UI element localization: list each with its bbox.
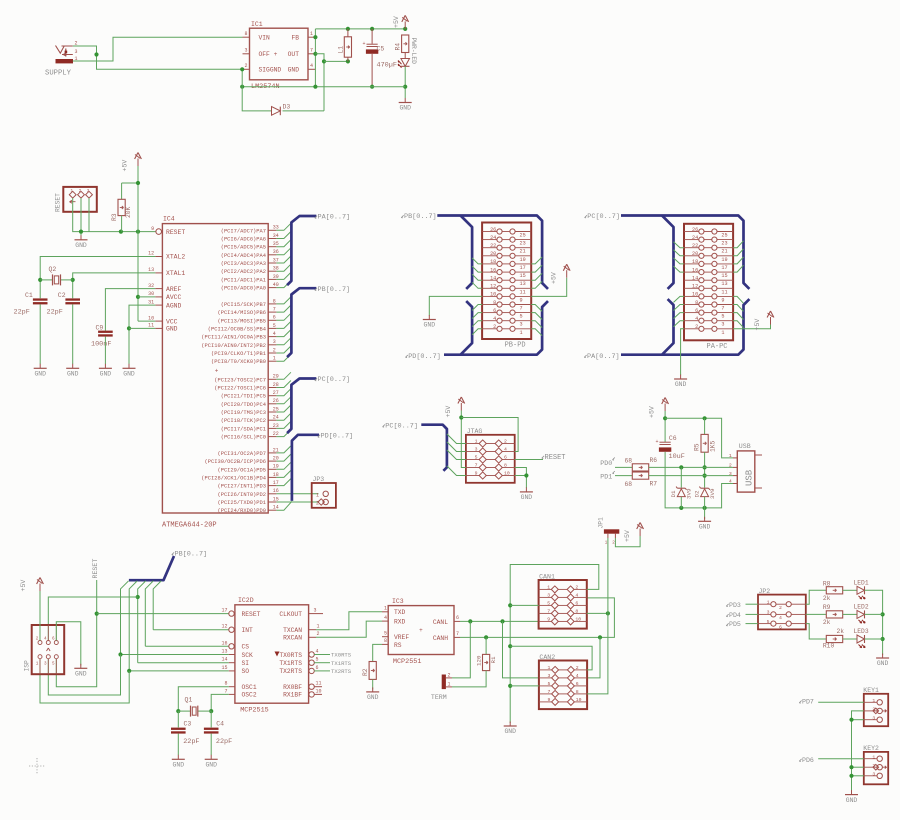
svg-text:10: 10: [576, 697, 582, 703]
svg-text:OSC2: OSC2: [242, 692, 257, 699]
svg-text:4: 4: [575, 592, 578, 598]
IC4 pin (PCI19/TMS)PC3 25: [268, 411, 276, 413]
svg-text:5: 5: [52, 662, 55, 667]
USB pin 4: [733, 483, 737, 485]
svg-text:TX0RTS: TX0RTS: [279, 652, 302, 659]
svg-text:20: 20: [692, 251, 698, 257]
wire USB +5V rail: [664, 411, 666, 442]
svg-text:3: 3: [273, 339, 276, 345]
svg-text:CAN2: CAN2: [539, 654, 555, 661]
IC2D pin SI 14: [229, 662, 235, 664]
svg-text:2k: 2k: [823, 595, 831, 602]
wire IC4 (PCI0/ADC0)PA0 to bus: [276, 281, 291, 288]
svg-text:10: 10: [490, 292, 496, 298]
svg-text:2: 2: [504, 438, 507, 444]
svg-text:17: 17: [221, 608, 227, 614]
wire IC4 (PCI7/ADC7)PA7 to bus: [276, 223, 291, 230]
IC4 pin (PCI25/TXD0)PD1 15: [268, 501, 276, 503]
svg-text:8: 8: [576, 689, 579, 695]
svg-text:2k: 2k: [823, 619, 831, 626]
svg-text:(PCI25/TXD0)PD1: (PCI25/TXD0)PD1: [217, 500, 266, 506]
svg-text:(PCI31/OC2A)PD7: (PCI31/OC2A)PD7: [217, 451, 266, 457]
svg-text:R1: R1: [490, 656, 497, 663]
IC2D pin RXCAN 2 wire to IC3 RXD: [309, 636, 316, 638]
PB-PD pin row 12/11: [482, 287, 497, 289]
wire JP1 pin2 to +5V: [615, 536, 640, 547]
svg-text:MCP2551: MCP2551: [393, 658, 422, 666]
svg-text:1: 1: [36, 662, 39, 667]
svg-text:KEY2: KEY2: [863, 745, 879, 752]
svg-text:GND: GND: [288, 67, 300, 74]
svg-text:LED1: LED1: [854, 580, 869, 587]
svg-text:RESET: RESET: [166, 229, 185, 236]
svg-text:8: 8: [224, 681, 227, 687]
wire OSC2 to Q1: [211, 694, 229, 711]
svg-text:2: 2: [576, 665, 579, 671]
PB-PD pin row 6/5: [482, 312, 497, 314]
svg-text:10: 10: [575, 616, 581, 622]
svg-text:1: 1: [872, 754, 875, 760]
junction C5 bottom on gnd rail: [370, 85, 374, 89]
svg-text:4: 4: [316, 649, 319, 655]
wire JP2 pin4 to R9: [806, 613, 827, 615]
svg-text:C1: C1: [25, 292, 33, 299]
wire IC4 (PCI17/SDA)PC1 to bus: [276, 421, 291, 428]
wire FB/OUT vertical: [314, 29, 316, 87]
voltage regulator IC1 LM2574N box: [250, 28, 309, 80]
jumper TERM: [442, 675, 446, 690]
capacitor C2 22pF: [65, 298, 80, 300]
IC3 pin RXD 4: [382, 620, 388, 622]
connector CAN2 box: [539, 661, 587, 710]
svg-text:8: 8: [504, 462, 507, 468]
svg-text:GND: GND: [123, 371, 135, 378]
can controller IC2D MCP2515 box: [235, 605, 309, 703]
svg-text:8: 8: [384, 638, 387, 644]
svg-text:GND: GND: [699, 524, 711, 531]
wire SCK net: [121, 654, 229, 656]
can transceiver IC3 MCP2551 box: [388, 606, 454, 655]
svg-text:22pF: 22pF: [183, 738, 199, 746]
svg-text:GND: GND: [877, 660, 889, 667]
svg-text:(PCI3/ADC3)PA3: (PCI3/ADC3)PA3: [221, 261, 266, 267]
svg-text:GND: GND: [521, 494, 533, 501]
svg-text:(PCI16/SCL)PC0: (PCI16/SCL)PC0: [221, 435, 266, 441]
svg-text:(PCI30/OC2B/ICP)PD6: (PCI30/OC2B/ICP)PD6: [205, 459, 266, 465]
svg-text:1: 1: [448, 682, 451, 688]
svg-text:1: 1: [729, 453, 732, 459]
wire PD6 to KEY2 pin1: [818, 758, 864, 760]
IC2D pin OSC1 8: [229, 686, 235, 688]
svg-text:1: 1: [273, 356, 276, 362]
svg-text:5: 5: [475, 454, 478, 460]
svg-text:SI: SI: [242, 660, 250, 667]
bus PB[0..7] at MCP2515: [129, 556, 174, 580]
PA-PC pin row 10/9: [684, 295, 699, 297]
svg-text:4: 4: [273, 331, 276, 337]
svg-text:CS: CS: [242, 644, 250, 651]
IC4 pin (PCI20/TDO)PC4 26: [268, 403, 276, 405]
wire IC4 (PCI12/OC0B/SS)PB4 to bus: [276, 321, 291, 328]
svg-text:2: 2: [575, 584, 578, 590]
svg-text:OSC1: OSC1: [242, 684, 257, 691]
IC3 pin RS 8: [382, 643, 388, 645]
svg-text:26: 26: [490, 227, 496, 233]
svg-text:R10: R10: [823, 642, 835, 649]
svg-text:4: 4: [695, 316, 698, 322]
ground below C9: [104, 364, 106, 369]
PA-PC pin row 2/1: [684, 328, 699, 330]
IC3 pin CANL 6: [454, 620, 460, 622]
wire RESET to IC2D: [97, 613, 229, 615]
svg-text:12: 12: [490, 284, 496, 290]
JP2 pin row 5/6: [758, 623, 771, 625]
wire JTAG pin6 RESET: [515, 459, 543, 461]
wire to gnd below USB rail: [704, 508, 706, 519]
IC1 pin FB 1: [308, 36, 315, 38]
svg-text:SUPPLY: SUPPLY: [45, 70, 72, 78]
IC4 pin (PCI12/OC0B/SS)PB4 5: [268, 327, 276, 329]
svg-text:GND: GND: [75, 671, 87, 678]
IC4 pin (PCI14/MISO)PB6 7: [268, 311, 276, 313]
svg-text:(PCI4/ADC4)PA4: (PCI4/ADC4)PA4: [221, 253, 266, 259]
resistor R8 2k: [826, 587, 842, 594]
svg-text:14: 14: [692, 276, 698, 282]
wire reset header pin3: [88, 198, 90, 232]
svg-text:C9: C9: [96, 325, 104, 332]
svg-text:VCC: VCC: [166, 318, 178, 325]
svg-text:PD[0..7]: PD[0..7]: [321, 433, 354, 441]
svg-text:10: 10: [692, 292, 698, 298]
ground at PA-PC: [680, 375, 682, 380]
ground below LEDs: [882, 654, 884, 659]
svg-text:(PCI11/AIN1/OC0A)PB3: (PCI11/AIN1/OC0A)PB3: [201, 335, 266, 341]
svg-text:(PCI20/TDO)PC4: (PCI20/TDO)PC4: [221, 402, 266, 408]
svg-text:PWR-LED: PWR-LED: [410, 38, 417, 65]
svg-text:+5V: +5V: [445, 406, 452, 418]
svg-text:5: 5: [384, 631, 387, 637]
PB-PD pin row 2/1: [482, 328, 497, 330]
svg-text:3: 3: [872, 715, 875, 721]
svg-text:LED2: LED2: [854, 604, 869, 611]
svg-text:20K: 20K: [125, 206, 132, 218]
svg-text:MCP2515: MCP2515: [240, 707, 269, 715]
wire +5V to ISP pin2: [39, 591, 41, 641]
ground below C4: [210, 755, 212, 760]
svg-text:9: 9: [547, 616, 550, 622]
IC4 pin (PCI23/TOSC2)PC7 29: [268, 378, 276, 380]
svg-text:GND: GND: [34, 371, 46, 378]
USB pin 2: [733, 466, 737, 468]
svg-text:PC[0..7]: PC[0..7]: [318, 376, 351, 384]
wire GND pin: [129, 327, 155, 329]
IC2D pin SO 15: [229, 670, 235, 672]
led PWR-LED: [404, 53, 406, 59]
wire AVCC: [138, 296, 155, 298]
crystal Q1: [176, 709, 180, 713]
svg-text:PD7: PD7: [802, 698, 814, 705]
capacitor C5 470uF: [371, 29, 373, 44]
crystal Q2: [40, 279, 52, 281]
connector SUPPLY jack: [56, 46, 65, 54]
svg-text:3: 3: [44, 662, 47, 667]
+5V at JTAG: [460, 403, 462, 411]
wire RS to R2: [373, 644, 382, 661]
svg-text:R6: R6: [650, 457, 658, 464]
svg-text:4: 4: [310, 63, 313, 69]
svg-text:1: 1: [548, 665, 551, 671]
svg-text:SIGGND: SIGGND: [259, 67, 282, 74]
wire IC4 (PCI20/TDO)PC4 to bus: [276, 397, 291, 404]
IC4 pin (PCI11/AIN1/OC0A)PB3 4: [268, 336, 276, 338]
svg-text:R4: R4: [395, 43, 402, 51]
svg-text:1: 1: [767, 599, 770, 605]
svg-text:1: 1: [547, 584, 550, 590]
connector PA-PC box: [684, 224, 733, 340]
wire OUT jog to L1/D3: [315, 54, 324, 111]
USB pin 3: [733, 475, 737, 477]
svg-text:(PCI21/TDI)PC5: (PCI21/TDI)PC5: [221, 394, 266, 400]
bus PC[0..7] at JTAG: [421, 425, 447, 471]
ground below C3: [177, 755, 179, 760]
IC4 pin AREF 32: [155, 288, 162, 290]
svg-text:AREF: AREF: [166, 286, 182, 293]
svg-text:ATMEGA644-20P: ATMEGA644-20P: [162, 522, 217, 530]
wire JTAG pin8/pin10 to gnd: [515, 468, 527, 489]
svg-text:(PCI15/SCK)PB7: (PCI15/SCK)PB7: [221, 302, 266, 308]
svg-text:RX0BF: RX0BF: [283, 684, 302, 691]
wire C6 bottom to gnd rail: [665, 452, 733, 508]
svg-text:3: 3: [244, 48, 247, 54]
wire IC4 (PCI14/MISO)PB6 to bus: [276, 305, 291, 312]
svg-text:L1: L1: [338, 46, 345, 54]
wire PA-PC pin2 to gnd: [681, 329, 684, 375]
svg-text:USB: USB: [739, 443, 751, 450]
svg-text:(PCI24/RXD0)PD0: (PCI24/RXD0)PD0: [217, 508, 266, 514]
svg-text:ISP: ISP: [24, 660, 31, 672]
wire IC4 (PCI15/SCK)PB7 to bus: [276, 297, 291, 304]
svg-text:CANL: CANL: [433, 619, 448, 626]
wire IC4 (PCI5/ADC5)PA5 to bus: [276, 240, 291, 247]
svg-text:9: 9: [151, 226, 154, 232]
wire MOSI to ISP pin4: [136, 595, 140, 599]
svg-text:(PCI23/TOSC2)PC7: (PCI23/TOSC2)PC7: [214, 377, 266, 383]
resistor R3 20K: [122, 182, 138, 184]
wires PA-PC lower taps: [674, 296, 685, 302]
svg-text:(PCI28/XCK1/OC1B)PD4: (PCI28/XCK1/OC1B)PD4: [201, 475, 266, 481]
svg-text:+: +: [655, 439, 658, 445]
wire IC4 (PCI27/INT1)PD3 to bus: [276, 479, 291, 486]
svg-text:4: 4: [44, 637, 47, 642]
ground below C2: [72, 364, 74, 369]
svg-text:7: 7: [548, 689, 551, 695]
PA-PC pin row 6/5: [684, 312, 699, 314]
IC3 pin TXD 1: [382, 611, 388, 613]
wire CANL net: [460, 620, 539, 622]
svg-text:100nF: 100nF: [91, 341, 111, 349]
svg-text:XTAL2: XTAL2: [166, 254, 185, 261]
svg-text:470µF: 470µF: [377, 62, 397, 70]
svg-text:16: 16: [490, 267, 496, 273]
wire CAN2 pin5: [510, 685, 539, 687]
svg-text:1: 1: [475, 438, 478, 444]
svg-text:16: 16: [221, 640, 227, 646]
svg-text:GND: GND: [173, 762, 185, 769]
svg-text:3: 3: [767, 610, 770, 616]
svg-text:25: 25: [520, 233, 526, 239]
svg-text:(PCI8/T0/XCK0)PB0: (PCI8/T0/XCK0)PB0: [211, 359, 266, 365]
PB-PD pin row 22/21: [482, 247, 497, 249]
svg-text:1: 1: [520, 330, 523, 336]
svg-text:7: 7: [273, 307, 276, 313]
svg-text:9: 9: [475, 470, 478, 476]
JTAG pin row 1/2: [466, 443, 479, 445]
svg-text:SO: SO: [242, 668, 250, 675]
IC4 pin AVCC 30: [155, 296, 162, 298]
wire PA-PC pin1 to +5V: [733, 325, 770, 329]
svg-text:5: 5: [547, 600, 550, 606]
wire IC4 (PCI23/TOSC2)PC7 to bus: [276, 372, 291, 379]
svg-text:13: 13: [520, 281, 526, 287]
svg-text:16: 16: [692, 267, 698, 273]
IC4 pin (PCI30/OC2B/ICP)PD6 20: [268, 460, 276, 462]
wire +5V top rail: [315, 28, 405, 30]
KEY1 pin 2: [864, 710, 877, 712]
svg-text:1: 1: [384, 606, 387, 612]
svg-text:VIN: VIN: [259, 35, 271, 42]
wire LED cathodes to gnd: [865, 590, 883, 655]
svg-text:PB-PD: PB-PD: [505, 342, 526, 350]
IC2D pin CLKOUT 3: [309, 613, 323, 615]
IC2D pin RESET 17: [229, 611, 234, 616]
svg-text:(PCI29/OC1A)PD5: (PCI29/OC1A)PD5: [217, 467, 266, 473]
svg-text:6: 6: [779, 624, 782, 630]
wire IC4 (PCI21/TDI)PC5 to bus: [276, 389, 291, 396]
svg-text:TXD: TXD: [394, 609, 406, 616]
connector PB-PD box: [482, 223, 531, 340]
KEY2 pin 3: [864, 775, 877, 777]
svg-text:PD4: PD4: [729, 612, 741, 619]
CAN1 pin row 9/10: [539, 620, 552, 622]
IC1 pin GND 4: [308, 68, 315, 70]
svg-text:(PCI10/AIN0/INT2)PB2: (PCI10/AIN0/INT2)PB2: [201, 343, 266, 349]
IC4 pin (PCI9/CLKO/T1)PB1 2: [268, 352, 276, 354]
IC1 pin OFF 3: [243, 53, 250, 55]
diode D3: [272, 107, 281, 116]
wire CANH to CAN2 pin4: [587, 637, 600, 678]
bus PB[0..7] at IC4: [287, 288, 316, 357]
zener diode D2 3V9: [701, 487, 709, 489]
svg-text:1: 1: [316, 492, 319, 498]
IC4 pin (PCI10/AIN0/INT2)PB2 3: [268, 344, 276, 346]
svg-text:PA[0..7]: PA[0..7]: [318, 214, 351, 222]
wire CANL to CAN2 pin3: [503, 621, 539, 678]
svg-text:2: 2: [244, 63, 247, 69]
KEY2 pin 1: [864, 758, 877, 760]
wire PD7 to KEY1 pin1: [818, 701, 864, 703]
PA-PC pin row 16/15: [684, 271, 699, 273]
JTAG pin row 9/10: [466, 475, 479, 477]
svg-text:32: 32: [148, 283, 154, 289]
svg-text:1: 1: [310, 31, 313, 37]
svg-text:7: 7: [721, 306, 724, 312]
PA-PC pin row 22/21: [684, 247, 699, 249]
svg-text:R3: R3: [111, 213, 118, 221]
svg-text:R9: R9: [823, 604, 831, 611]
CAN2 pin row 3/4: [539, 677, 552, 679]
svg-text:TXCAN: TXCAN: [283, 627, 302, 634]
svg-text:GND: GND: [675, 381, 687, 388]
svg-text:IC2D: IC2D: [238, 597, 254, 604]
+5V at USB: [664, 404, 666, 412]
svg-text:RESET: RESET: [545, 454, 566, 462]
IC4 pin RESET 9: [156, 229, 162, 235]
ground at JTAG: [525, 487, 527, 492]
IC4 pin (PCI27/INT1)PD3 17: [268, 485, 276, 487]
svg-text:7: 7: [475, 462, 478, 468]
svg-text:23: 23: [520, 241, 526, 247]
svg-text:12: 12: [221, 624, 227, 630]
bus PD[0..7] bracket lower-left: [444, 301, 548, 355]
svg-text:C4: C4: [216, 721, 224, 728]
svg-text:TX2RTS: TX2RTS: [331, 668, 352, 675]
svg-text:(PCI27/INT1)PD3: (PCI27/INT1)PD3: [217, 484, 266, 490]
wire IC4 PD0 to PD bus: [276, 501, 292, 510]
svg-text:R7: R7: [650, 480, 658, 487]
wire AGND to gnd: [129, 305, 155, 364]
svg-text:23: 23: [721, 241, 727, 247]
bus PA[0..7] bracket lower PA-PC: [621, 299, 749, 355]
switch KEY1 box: [864, 694, 888, 726]
svg-text:(PCI6/ADC6)PA6: (PCI6/ADC6)PA6: [221, 237, 266, 243]
svg-text:AVCC: AVCC: [166, 294, 182, 301]
svg-text:4: 4: [493, 316, 496, 322]
svg-text:4: 4: [576, 673, 579, 679]
wire IC4 (PCI28/XCK1/OC1B)PD4 to bus: [276, 470, 291, 477]
svg-text:15: 15: [221, 665, 227, 671]
jumper JP1: [604, 529, 619, 533]
svg-text:RESET: RESET: [242, 611, 261, 618]
wire PD1 to R7: [615, 475, 632, 477]
svg-text:R5: R5: [694, 443, 701, 451]
svg-text:(PCI18/TCK)PC2: (PCI18/TCK)PC2: [221, 418, 266, 424]
CAN2 pin row 1/2: [539, 669, 552, 671]
svg-text:PD3: PD3: [729, 602, 741, 609]
svg-text:3: 3: [547, 592, 550, 598]
led LED2: [843, 613, 857, 615]
svg-text:GND: GND: [100, 371, 112, 378]
svg-text:+: +: [215, 368, 219, 375]
wire IC4 (PCI9/CLKO/T1)PB1 to bus: [276, 346, 291, 353]
svg-text:3: 3: [314, 607, 317, 613]
svg-text:TERM: TERM: [431, 694, 447, 701]
IC4 pin (PCI1/ADC1)PA1 39: [268, 278, 276, 280]
svg-text:3: 3: [75, 49, 78, 55]
svg-text:9: 9: [520, 297, 523, 303]
wire VCC: [138, 320, 155, 322]
PB-PD pin row 26/25: [482, 231, 497, 233]
svg-text:Q1: Q1: [185, 697, 193, 704]
svg-text:8: 8: [493, 300, 496, 306]
capacitor C1 22pF: [33, 298, 48, 300]
svg-text:PD1: PD1: [600, 473, 612, 480]
svg-text:22pF: 22pF: [47, 309, 63, 317]
svg-text:OUT: OUT: [288, 51, 300, 58]
resistor R1 120: [485, 637, 487, 654]
wire IC4 (PCI6/ADC6)PA6 to bus: [276, 232, 291, 239]
svg-text:TX1RTS: TX1RTS: [331, 660, 352, 667]
ground below USB: [704, 517, 706, 522]
